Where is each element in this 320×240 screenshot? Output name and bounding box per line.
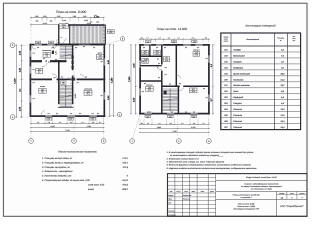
plan 1 axis lines xyxy=(31,26,104,139)
plan 2 axis circles 1 2 3 xyxy=(130,115,211,144)
svg-text:-908,2: -908,2 xyxy=(122,188,129,191)
svg-text:4,4: 4,4 xyxy=(156,52,159,55)
svg-text:План на отм. 0.000: План на отм. 0.000 xyxy=(56,10,86,14)
plan 1 window tags top wall xyxy=(35,41,54,44)
terrace label box xyxy=(59,24,68,30)
svg-text:1. Площадь жилого дома, м²: 1. Площадь жилого дома, м² xyxy=(42,157,72,160)
svg-text:Кухня-столовая: Кухня-столовая xyxy=(233,72,251,75)
title block left grid rows xyxy=(168,177,216,212)
svg-text:Экспликация помещений: Экспликация помещений xyxy=(245,25,276,28)
plan 2 outer wall left xyxy=(139,44,141,115)
plan 2 stair flight xyxy=(163,89,178,112)
svg-text:4,1: 4,1 xyxy=(38,71,41,74)
svg-text:жилая: жилая xyxy=(39,86,45,88)
svg-text:4,28: 4,28 xyxy=(133,63,136,69)
plan 1 entrance steps + door swing xyxy=(52,37,67,49)
svg-text:ООО "СтройПроект": ООО "СтройПроект" xyxy=(280,205,304,208)
svg-text:9,5: 9,5 xyxy=(165,59,168,62)
svg-text:гостиная: гостиная xyxy=(84,88,92,90)
svg-text:2. Этажность жилого дома м ±: 2. Этажность жилого дома м ±2 xyxy=(166,157,200,160)
svg-text:Экспликация помещений. ТЭП: Экспликация помещений. ТЭП xyxy=(233,207,259,210)
svg-text:21,3: 21,3 xyxy=(85,93,90,96)
plan 1 stair hall tag xyxy=(61,81,66,85)
svg-text:Кол.уч: Кол.уч xyxy=(177,191,181,193)
svg-text:котельная: котельная xyxy=(42,50,51,52)
plan 1 top dimension chains xyxy=(30,14,104,28)
plan 1 right dimension chains xyxy=(107,44,114,117)
svg-text:7,180: 7,180 xyxy=(13,78,16,84)
plan 1 interior wall horizontal (upper-left room divider, with flues) xyxy=(30,60,66,62)
svg-text:2. Площадь жилая с перегородка: 2. Площадь жилая с перегородками, м² xyxy=(41,161,84,164)
svg-text:Гостиная: Гостиная xyxy=(233,78,244,81)
plan 1 bottom dimension chains xyxy=(30,118,104,132)
svg-text:поме-: поме- xyxy=(292,38,296,40)
svg-text:3,250: 3,250 xyxy=(191,126,195,129)
svg-text:Технико-экономические показате: Технико-экономические показатели xyxy=(58,151,98,154)
svg-text:5. Наружная отделка выполняетс: 5. Наружная отделка выполняется отделочн… xyxy=(167,167,257,170)
svg-text:2,950: 2,950 xyxy=(86,125,91,128)
plan 1 outer wall right xyxy=(103,44,105,117)
plan 2 right dimension chain xyxy=(210,44,214,114)
svg-text:спальня: спальня xyxy=(193,49,199,51)
svg-text:4. Величина фасадных отделывае: 4. Величина фасадных отделываемых элемен… xyxy=(167,164,252,167)
svg-text:101: 101 xyxy=(224,48,227,51)
plan 1 interior dimension marks xyxy=(32,45,102,115)
svg-text:Котельная: Котельная xyxy=(233,54,245,57)
svg-text:Санузел: Санузел xyxy=(233,60,242,63)
svg-text:3. Площадь застройки, м²: 3. Площадь застройки, м² xyxy=(42,166,70,169)
plan 1 title: План на отм. 0.000 xyxy=(56,10,86,14)
svg-text:Спальня: Спальня xyxy=(233,114,243,117)
room schedule title: Экспликация помещений xyxy=(245,25,276,28)
plan 2 interior walls xyxy=(140,45,209,114)
svg-text:кухня: кухня xyxy=(98,52,103,54)
svg-text:3,010: 3,010 xyxy=(74,94,77,99)
plan 2 outer wall bottom xyxy=(139,113,210,115)
svg-text:7,230: 7,230 xyxy=(65,129,69,132)
room schedule table xyxy=(221,33,301,130)
level mark box right of terrace xyxy=(107,29,114,34)
plan 1 upper stair flight xyxy=(60,46,72,60)
svg-text:щения: щения xyxy=(224,41,229,43)
svg-text:Терр.: Терр. xyxy=(62,24,67,27)
svg-text:р-н, Михалково, ул. Мира: р-н, Михалково, ул. Мира xyxy=(250,187,272,190)
svg-text:План на отм. +3.000: План на отм. +3.000 xyxy=(157,27,187,31)
plan 2 title: План на отм. +3.000 xyxy=(157,27,187,31)
plan 2 outer wall right xyxy=(208,44,210,115)
svg-text:3,980: 3,980 xyxy=(157,126,161,129)
title block project name xyxy=(241,183,281,191)
general notes block xyxy=(166,151,257,170)
plan 1 lower stair flight xyxy=(58,85,74,107)
svg-text:ниже отм. 0,00: ниже отм. 0,00 xyxy=(88,184,105,187)
svg-text:3,010: 3,010 xyxy=(43,22,47,25)
plan 1 terrace (deck with hatch) xyxy=(59,25,106,44)
title block bottom sheet titles xyxy=(233,202,259,210)
plan 1 room label boxes xyxy=(36,52,104,95)
svg-text:7,230: 7,230 xyxy=(172,130,176,133)
plan 2 room name texts xyxy=(146,49,199,88)
plan 1 axis circles А В left xyxy=(10,43,29,120)
svg-text:3. Обозначения: окна и двери,: 3. Обозначения: окна и двери, см. лист 7… xyxy=(167,160,226,163)
svg-text:спальня: спальня xyxy=(146,84,152,86)
svg-text:1. В отапливаемую площадь (объ: 1. В отапливаемую площадь (объём) здания… xyxy=(167,151,254,154)
plan 2 door swing arcs xyxy=(142,53,183,91)
svg-text:Холл: Холл xyxy=(232,90,239,93)
svg-text:Санузел: Санузел xyxy=(233,102,242,105)
title block stage sheet cells xyxy=(279,192,305,199)
svg-text:Спальня: Спальня xyxy=(233,126,243,129)
plan 1 window sill tags bottom xyxy=(45,117,97,120)
svg-text:-170,1: -170,1 xyxy=(122,157,129,160)
plan 2 lintel tags top xyxy=(145,40,197,43)
plan 1 outer wall top xyxy=(30,44,106,46)
plan 1 mid-wall flue block xyxy=(72,78,75,80)
svg-text:Наименование: Наименование xyxy=(246,38,259,41)
svg-text:спальня: спальня xyxy=(190,86,196,88)
svg-text:20,2: 20,2 xyxy=(61,26,66,29)
title block sheet name xyxy=(233,193,261,199)
plan 1 axis circles 1 2 3 xyxy=(29,139,106,144)
title block left grid texts xyxy=(168,190,214,216)
svg-text:7,180: 7,180 xyxy=(128,76,131,82)
svg-text:Изм: Изм xyxy=(170,191,173,193)
plan 1 left dimension chains xyxy=(13,45,23,118)
title block left grid columns xyxy=(175,174,216,217)
plan 2 top dimension chain xyxy=(139,37,209,43)
svg-text:Жилая комната: Жилая комната xyxy=(232,84,250,87)
svg-text:Гардероб: Гардероб xyxy=(233,96,244,99)
svg-text:4,280: 4,280 xyxy=(50,125,54,128)
svg-text:4,4: 4,4 xyxy=(144,52,147,55)
svg-text:Шифр: Индивид. жилой дом. 14-А: Шифр: Индивид. жилой дом. 14-АС xyxy=(246,176,277,179)
svg-text:16,4: 16,4 xyxy=(191,90,195,93)
plan 2 room label boxes xyxy=(142,50,200,93)
technical-economic indicators title xyxy=(58,151,98,154)
svg-text:1,49: 1,49 xyxy=(72,15,76,18)
plan 1 door swing arcs xyxy=(32,46,85,116)
title block organization xyxy=(280,205,304,208)
title block designation xyxy=(246,176,277,179)
svg-text:1,49: 1,49 xyxy=(35,15,39,18)
plan 1 axis circles right side xyxy=(105,37,125,117)
plan 1 stair channel inner dim xyxy=(55,51,77,98)
svg-text:150: 150 xyxy=(90,22,93,24)
svg-text:12,4: 12,4 xyxy=(143,61,147,64)
svg-text:поме-: поме- xyxy=(224,39,229,41)
svg-text:Дата: Дата xyxy=(209,191,214,193)
svg-text:-100,0: -100,0 xyxy=(122,184,129,187)
svg-text:201: 201 xyxy=(223,90,227,93)
title block right dividers xyxy=(216,180,307,216)
svg-text:-111,8: -111,8 xyxy=(122,166,129,169)
plan 1 stair right wall with flues xyxy=(72,45,74,105)
svg-text:Спальня: Спальня xyxy=(233,120,243,123)
plan 1 chimney block xyxy=(52,51,54,54)
svg-text:1,49: 1,49 xyxy=(57,15,61,18)
plan 1 middle wall (axis Б) xyxy=(30,78,106,80)
title block frame xyxy=(168,174,308,217)
plan 1 interior wall vertical (stair left wall) xyxy=(58,60,60,104)
svg-text:7,180: 7,180 xyxy=(110,77,113,83)
plan 2 bottom dimension chains xyxy=(139,119,209,133)
svg-text:-150,1: -150,1 xyxy=(122,161,129,164)
plan 1 outer wall bottom xyxy=(30,115,106,117)
svg-text:№док: №док xyxy=(192,191,196,193)
svg-text:1,52: 1,52 xyxy=(55,51,58,55)
plan 2 outer wall top xyxy=(139,44,210,46)
svg-text:6. Строительный объём, м³ выш: 6. Строительный объём, м³ выше отм. 0,00 xyxy=(42,179,90,182)
svg-text:всего: всего xyxy=(88,188,95,191)
svg-text:на участке 1: на участке 1 xyxy=(241,196,252,199)
svg-text:не отапливаемых объёмных элеме: не отапливаемых объёмных элементов (терр… xyxy=(170,154,224,157)
plan 2 window sill tags bottom xyxy=(144,115,198,118)
svg-text:5. Количество этажей, шт: 5. Количество этажей, шт xyxy=(42,175,71,178)
svg-text:16,4: 16,4 xyxy=(148,89,152,92)
svg-text:1,49: 1,49 xyxy=(43,15,47,18)
svg-text:1,49: 1,49 xyxy=(83,15,87,18)
svg-text:Спальня: Спальня xyxy=(233,108,243,111)
svg-text:7,4: 7,4 xyxy=(45,55,48,58)
plan 1 room name texts xyxy=(39,50,102,90)
svg-text:21,3: 21,3 xyxy=(280,78,286,81)
svg-text:18,9: 18,9 xyxy=(98,57,102,60)
technical-economic indicators list xyxy=(41,157,129,191)
plan 2 interior dimension marks xyxy=(142,46,208,114)
svg-text:17,6: 17,6 xyxy=(195,54,199,57)
svg-text:Листов: Листов xyxy=(298,193,304,195)
plan 2 left dimension chains xyxy=(128,44,137,114)
plan 1 outer wall left xyxy=(30,44,32,117)
svg-text:Кладовая: Кладовая xyxy=(233,66,244,69)
svg-text:2,95: 2,95 xyxy=(133,97,136,103)
svg-text:4. Этажность - мансардный: 4. Этажность - мансардный xyxy=(42,170,73,173)
svg-text:-16,91: -16,91 xyxy=(122,179,129,182)
svg-text:Тамбур: Тамбур xyxy=(233,48,241,51)
